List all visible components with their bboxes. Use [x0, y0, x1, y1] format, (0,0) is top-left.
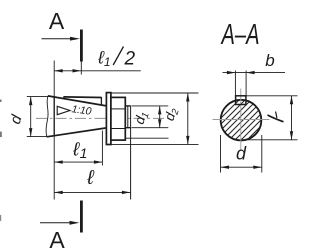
extension lines d2 (washer)	[111, 92, 199, 94]
shaft taper top edge	[48, 96, 107, 106]
extension lines d1	[132, 105, 169, 107]
svg-text:A–A: A–A	[220, 19, 259, 51]
dimension d2 line	[187, 93, 189, 144]
dimension l line	[54, 191, 130, 193]
centerline shaft	[36, 117, 171, 119]
dimension b line	[223, 72, 286, 74]
key top line	[64, 96, 102, 99]
section line A top thick mark	[80, 30, 83, 62]
dimension d1 line	[159, 106, 161, 128]
nut	[111, 97, 125, 140]
key right end vertical	[100, 97, 102, 105]
extension lines d (left)	[27, 96, 53, 98]
svg-text:A: A	[49, 8, 65, 34]
key left end tick	[63, 96, 65, 98]
dimension t line	[291, 96, 293, 140]
shaft taper bottom edge	[47, 128, 107, 137]
svg-text:d: d	[236, 144, 247, 164]
threaded stub bottom	[125, 127, 130, 129]
dimension l1/2 line	[54, 70, 141, 72]
threaded stub top	[125, 105, 130, 107]
thread line	[127, 106, 129, 128]
dimension d line (A-A)	[221, 166, 262, 168]
extension line l1 right	[101, 131, 103, 166]
svg-text:b: b	[265, 51, 274, 70]
nut facet line upper	[111, 108, 125, 110]
shaft big-end vertical edge	[53, 96, 55, 136]
stub end vertical + l extension	[130, 106, 132, 200]
extension lines b	[234, 71, 236, 96]
hatching	[200, 43, 290, 187]
shaft break wavy line	[46, 96, 48, 136]
svg-text:A: A	[49, 227, 65, 252]
label t (rotated)	[268, 112, 284, 122]
centerline vertical (A-A)	[240, 89, 242, 152]
extension line big end (vertical through shaft)	[53, 61, 55, 200]
svg-text:2: 2	[124, 49, 136, 70]
washer	[106, 93, 111, 145]
nut bottom extension line	[126, 137, 169, 139]
edge artifact marks	[0, 100, 2, 103]
dimension l1 line	[54, 161, 102, 163]
shaft circle	[221, 100, 262, 141]
key cross-section rectangle	[236, 96, 246, 105]
section line A bottom thick mark	[80, 201, 83, 233]
taper symbol triangle	[57, 106, 70, 114]
extension lines t	[246, 95, 297, 97]
section arrow bottom	[40, 222, 73, 224]
section arrow top	[42, 38, 74, 40]
section line A top thin continuation	[80, 62, 82, 75]
nut facet line lower	[111, 128, 125, 130]
centerline horizontal (A-A)	[213, 119, 270, 121]
dimension d line (left)	[30, 97, 32, 137]
extension lines d (A-A)	[220, 135, 222, 173]
